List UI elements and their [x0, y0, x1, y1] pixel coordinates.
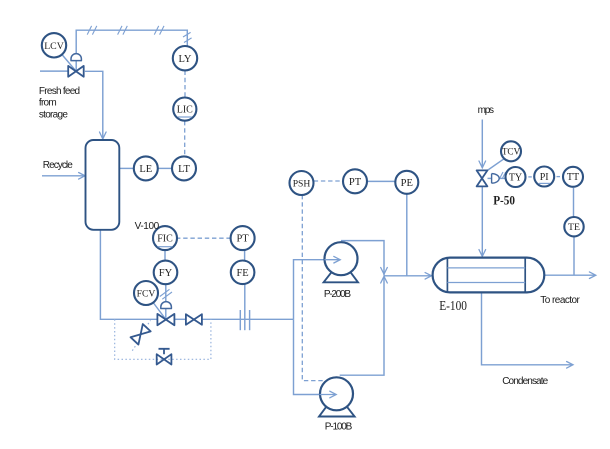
svg-text:V-100: V-100: [135, 221, 160, 232]
svg-text:LCV: LCV: [44, 41, 64, 52]
svg-text:LIC: LIC: [177, 105, 193, 116]
svg-text:TCV: TCV: [502, 147, 521, 157]
svg-text:E-100: E-100: [439, 298, 467, 313]
svg-text:Recycle: Recycle: [43, 160, 73, 171]
svg-text:P-100B: P-100B: [325, 421, 353, 432]
svg-text:FE: FE: [236, 268, 248, 279]
svg-text:FCV: FCV: [137, 289, 156, 300]
svg-text:storage: storage: [39, 109, 68, 120]
svg-text:PT: PT: [349, 177, 362, 188]
svg-text:LY: LY: [179, 54, 192, 65]
svg-text:Condensate: Condensate: [502, 376, 548, 387]
svg-text:LE: LE: [139, 164, 152, 175]
svg-text:FY: FY: [159, 268, 173, 279]
svg-text:PSH: PSH: [293, 179, 311, 190]
svg-text:TY: TY: [509, 172, 522, 183]
svg-text:FIC: FIC: [157, 234, 173, 245]
svg-text:mps: mps: [478, 105, 494, 116]
svg-text:P-50: P-50: [493, 193, 515, 208]
svg-text:TE: TE: [568, 222, 580, 233]
svg-text:from: from: [39, 98, 57, 109]
svg-text:PI: PI: [540, 172, 549, 183]
svg-text:LT: LT: [178, 164, 190, 175]
svg-text:P-200B: P-200B: [324, 289, 351, 300]
svg-text:Fresh feed: Fresh feed: [39, 86, 80, 97]
svg-text:To reactor: To reactor: [540, 295, 580, 306]
svg-text:PT: PT: [236, 234, 249, 245]
svg-text:PE: PE: [401, 178, 413, 189]
svg-text:TT: TT: [567, 172, 579, 183]
